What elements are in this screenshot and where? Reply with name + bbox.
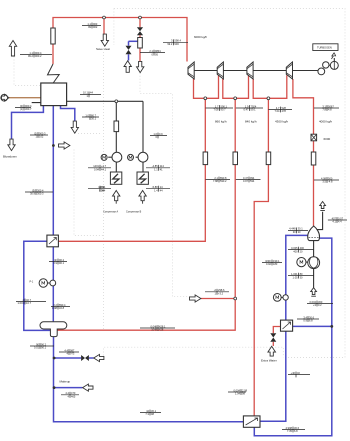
node J-saveheat [103, 16, 106, 19]
extra-water HX right [293, 325, 332, 327]
turbine ST4 [286, 62, 292, 79]
svg-text:1.0: 1.0 [153, 132, 157, 136]
svg-text:900.4: 900.4 [25, 104, 32, 108]
generator energy glyph [331, 53, 335, 59]
valve on drain branch (horizontal) [81, 355, 89, 361]
svg-text:10.1: 10.1 [83, 91, 89, 95]
T4 exhaust to condenser [293, 79, 314, 226]
value label flag 21 [25, 189, 53, 195]
node J-comp [115, 100, 118, 103]
svg-text:0.98: 0.98 [52, 306, 58, 310]
svg-text:Makeup: Makeup [60, 380, 71, 384]
svg-text:0.07: 0.07 [338, 216, 344, 220]
desuperheater rect on PRV line [138, 38, 143, 49]
T1 exhaust [194, 79, 205, 98]
generator circle big [330, 61, 338, 69]
svg-text:0.9: 0.9 [159, 132, 163, 136]
K1 energy arrow up [113, 191, 120, 201]
value label flag 5 [206, 105, 234, 111]
svg-text:4.8: 4.8 [328, 108, 332, 112]
svg-text:590.2: 590.2 [220, 179, 227, 183]
svg-text:598.4: 598.4 [174, 39, 181, 43]
heater rect on extraction 2 [233, 152, 238, 165]
svg-text:Compressor A: Compressor A [103, 211, 119, 214]
value label flag 3 [140, 50, 165, 56]
svg-text:1048: 1048 [151, 328, 157, 332]
svg-text:0.048: 0.048 [151, 324, 158, 328]
svg-text:903: 903 [174, 42, 179, 46]
node J-drain [53, 357, 56, 360]
svg-text:594: 594 [250, 179, 255, 183]
node J-makeup [53, 386, 56, 389]
svg-text:99.2: 99.2 [28, 54, 34, 58]
burner tick [32, 102, 50, 104]
value label flag 40 [328, 217, 347, 223]
ARROWS [1, 34, 326, 391]
svg-text:90.1: 90.1 [41, 346, 47, 350]
JUNCTION RINGS [103, 16, 270, 300]
svg-text:0.92: 0.92 [266, 262, 272, 266]
svg-text:1.001: 1.001 [18, 301, 25, 305]
BLACK NETWORK [32, 58, 335, 288]
condensate transfer glyph [311, 288, 317, 295]
motor M1 [101, 154, 107, 160]
generator circle mid [323, 62, 329, 68]
save heat branch [103, 18, 105, 35]
value label flag 23 [16, 299, 46, 305]
svg-text:7.8: 7.8 [322, 108, 326, 112]
heater rect on extraction 3 [266, 152, 271, 165]
svg-text:90.2: 90.2 [41, 342, 47, 346]
value label flag 11 [236, 177, 261, 183]
svg-text:2.08: 2.08 [242, 388, 248, 392]
svg-text:30.1: 30.1 [298, 227, 304, 231]
svg-text:4.4: 4.4 [338, 220, 342, 224]
svg-text:4.4: 4.4 [64, 348, 68, 352]
svg-text:465: 465 [71, 395, 76, 399]
svg-text:0.9: 0.9 [53, 261, 57, 265]
svg-text:407: 407 [332, 216, 337, 220]
condenser vent glyph [320, 202, 326, 209]
spray feed arrow up [124, 61, 131, 73]
svg-text:Save Heat: Save Heat [96, 47, 110, 51]
svg-text:90.1: 90.1 [59, 261, 65, 265]
svg-text:1.7: 1.7 [215, 104, 219, 108]
node J-mix [234, 297, 237, 300]
turbine ST3 [247, 62, 253, 79]
svg-text:30.1: 30.1 [151, 409, 157, 413]
svg-text:-5.88: -5.88 [152, 185, 158, 189]
prv branch [139, 18, 141, 28]
svg-text:0.01: 0.01 [34, 346, 40, 350]
value label flag 22 [49, 259, 67, 265]
svg-text:6.8: 6.8 [294, 429, 298, 433]
svg-text:7924: 7924 [251, 104, 257, 108]
svg-text:1.1: 1.1 [154, 168, 158, 172]
valve branch [54, 357, 81, 359]
value label flag 33 [262, 260, 282, 266]
value label flag 38 [205, 289, 229, 295]
svg-text:(2): (2) [54, 258, 57, 262]
svg-text:114: 114 [160, 164, 165, 168]
blowdown arrow down [8, 139, 15, 151]
FW heater HX box [47, 235, 59, 247]
svg-text:7.35: 7.35 [287, 429, 293, 433]
makeup branch [54, 387, 82, 389]
boundary top [114, 9, 345, 358]
svg-text:4.998: 4.998 [286, 426, 293, 430]
svg-text:30.6: 30.6 [309, 315, 315, 319]
value label flag 9 [150, 133, 167, 139]
svg-text:860 kg/h: 860 kg/h [215, 120, 227, 124]
generator label box [313, 44, 338, 51]
svg-text:190.1: 190.1 [273, 259, 280, 263]
boundary left stub [113, 9, 115, 46]
J2 extraction to deaerator [234, 100, 236, 297]
svg-text:(2): (2) [34, 131, 37, 135]
svg-text:4.7: 4.7 [276, 106, 280, 110]
feed pump motor [39, 279, 47, 287]
svg-text:3.1: 3.1 [322, 104, 326, 108]
drain to extra-water link [104, 347, 284, 357]
extra water [273, 327, 280, 334]
svg-text:90.2: 90.2 [59, 258, 65, 262]
svg-text:1.04: 1.04 [235, 392, 241, 396]
value label flag 10 [206, 177, 231, 183]
extra water arrow up [268, 346, 276, 356]
boiler blowdown [12, 106, 44, 139]
svg-text:6.8: 6.8 [309, 319, 313, 323]
heater rect on condenser line [311, 152, 316, 165]
cooling column [286, 235, 308, 320]
value label flag 4 [163, 39, 188, 45]
turbine ST2 [217, 62, 223, 79]
feedwater riser: boiler to heater [52, 106, 54, 235]
node J-coolant [330, 325, 333, 328]
svg-text:4.4: 4.4 [65, 391, 69, 395]
value label flag 2 [82, 23, 101, 29]
svg-text:+4.7: +4.7 [101, 164, 107, 168]
boiler vent arrow down [71, 121, 78, 133]
value label flag 36 [288, 273, 314, 279]
svg-text:744: 744 [101, 185, 106, 189]
svg-text:500: 500 [328, 176, 333, 180]
X valve box on condenser line [311, 134, 317, 141]
feed pump [50, 280, 56, 286]
svg-text:-4.8: -4.8 [328, 180, 333, 184]
svg-text:+40: +40 [291, 371, 296, 375]
svg-text:-4.85: -4.85 [152, 164, 158, 168]
svg-text:300.3: 300.3 [37, 192, 44, 196]
svg-text:1.9: 1.9 [245, 104, 249, 108]
value label flag 7 [268, 107, 292, 113]
value label flag 26 [59, 349, 79, 355]
svg-text:973: 973 [70, 352, 75, 356]
drain outlet arrow left [94, 354, 104, 361]
svg-text:6000 kg/h: 6000 kg/h [194, 35, 208, 39]
svg-text:903: 903 [93, 22, 98, 26]
svg-text:890.8: 890.8 [220, 176, 227, 180]
cooling pump motor [273, 294, 281, 302]
svg-text:900.3: 900.3 [39, 131, 46, 135]
svg-text:4.1: 4.1 [332, 220, 336, 224]
main steam [52, 44, 54, 64]
svg-text:300: 300 [318, 300, 323, 304]
value label flag 34 [288, 228, 308, 234]
svg-text:0.47: 0.47 [243, 176, 249, 180]
svg-text:0.004: 0.004 [310, 300, 317, 304]
svg-text:Blowdown: Blowdown [3, 155, 17, 159]
svg-text:1.0: 1.0 [85, 113, 89, 117]
svg-text:478: 478 [282, 109, 287, 113]
left loop [24, 241, 51, 330]
generator circle small [318, 68, 325, 75]
svg-text:7.3: 7.3 [145, 412, 149, 416]
svg-text:59.1: 59.1 [251, 108, 257, 112]
node J1 [204, 97, 207, 100]
svg-text:2.1: 2.1 [214, 176, 218, 180]
svg-text:4300 kg/h: 4300 kg/h [275, 120, 289, 124]
J1 extraction to FW heater [59, 100, 206, 241]
mixer inlet arrow right [189, 295, 200, 302]
prv link [140, 73, 191, 297]
svg-text:(190): (190) [265, 259, 271, 263]
svg-text:1.1: 1.1 [87, 22, 91, 26]
motor M2 [128, 154, 134, 160]
bottom HX box [243, 416, 260, 427]
value label flag 12 [314, 177, 339, 183]
prv spray line [128, 41, 130, 45]
boiler vent right [61, 106, 75, 121]
svg-text:890.4: 890.4 [59, 303, 66, 307]
node J2 [234, 97, 237, 100]
value label flag 19 [88, 186, 111, 192]
svg-text:90.7: 90.7 [221, 108, 227, 112]
svg-text:300.4: 300.4 [37, 188, 44, 192]
svg-text:(3): (3) [32, 188, 35, 192]
svg-text:0.2: 0.2 [318, 303, 322, 307]
svg-text:Compressor B: Compressor B [126, 211, 142, 214]
svg-text:44.1: 44.1 [101, 168, 107, 172]
svg-text:4000 kg/h: 4000 kg/h [319, 120, 333, 124]
RED NETWORK [53, 18, 314, 416]
svg-text:428: 428 [159, 328, 164, 332]
svg-text:987: 987 [70, 348, 75, 352]
condenser vent [317, 212, 323, 230]
svg-text:10.7: 10.7 [26, 301, 32, 305]
svg-text:TURBOGEN: TURBOGEN [317, 46, 332, 50]
boiler side outlet arrow right [59, 142, 70, 149]
svg-text:9891: 9891 [155, 49, 161, 53]
svg-text:(0): (0) [20, 104, 23, 108]
BROWN FUEL [9, 97, 41, 99]
svg-text:902: 902 [93, 25, 98, 29]
value label flag 32 [288, 372, 310, 378]
shaft [194, 70, 217, 72]
svg-text:840 kg/h: 840 kg/h [245, 120, 257, 124]
svg-text:3.5: 3.5 [322, 180, 326, 184]
compressor K2 circle [138, 152, 148, 162]
svg-text:428.1: 428.1 [159, 324, 166, 328]
condensate pump motor [297, 258, 306, 267]
bottom HX right to extra-water HX bottom [260, 331, 286, 421]
value label flag 25 [30, 343, 54, 349]
deaerator vessel [40, 322, 67, 337]
svg-text:30.6: 30.6 [294, 426, 300, 430]
value label flag 37 [307, 301, 333, 307]
value label flag 20 [146, 186, 170, 192]
svg-text:298.6: 298.6 [218, 288, 225, 292]
vent link [74, 150, 103, 236]
svg-text:400: 400 [293, 249, 298, 253]
T2 exhaust [223, 79, 234, 98]
boiler out to compressors [67, 100, 143, 102]
svg-text:32.8: 32.8 [59, 306, 65, 310]
svg-text:1.1: 1.1 [29, 51, 33, 55]
svg-text:0.004: 0.004 [234, 388, 241, 392]
value label flag 24 [51, 304, 70, 310]
value label flag 16 [80, 92, 101, 98]
value label flag 13 [15, 105, 31, 111]
blowoff link [78, 133, 101, 135]
condensate pump [308, 257, 320, 269]
extra water HX box [281, 320, 293, 331]
svg-text:7.04: 7.04 [274, 109, 280, 113]
svg-text:Extra Water: Extra Water [261, 359, 277, 363]
air feed link [14, 57, 41, 86]
valve on PRV line (vertical) [137, 27, 143, 35]
svg-text:528: 528 [282, 106, 287, 110]
value label flag 18 [146, 165, 170, 171]
valve on spray line (vertical) [126, 46, 132, 55]
svg-text:2.1: 2.1 [149, 49, 153, 53]
makeup arrow left [83, 384, 93, 391]
node J-prv [139, 16, 142, 19]
svg-text:99.2: 99.2 [167, 42, 173, 46]
T3 exhaust [253, 79, 267, 98]
svg-text:7.08: 7.08 [213, 108, 219, 112]
svg-text:183: 183 [273, 262, 278, 266]
energy box K2 [137, 172, 148, 184]
svg-text:900.4: 900.4 [35, 51, 42, 55]
svg-text:300.7: 300.7 [25, 107, 32, 111]
svg-text:1.4: 1.4 [154, 188, 158, 192]
value label flag 30 [297, 316, 319, 322]
svg-text:7.88: 7.88 [213, 179, 219, 183]
GRAY GUIDES [14, 9, 345, 358]
svg-text:0.005: 0.005 [291, 246, 298, 250]
svg-text:(1): (1) [20, 107, 23, 111]
svg-text:40.7: 40.7 [26, 298, 32, 302]
svg-text:102: 102 [39, 135, 44, 139]
K2 energy arrow up [139, 191, 146, 201]
turbine ST1 [188, 62, 194, 79]
J3 extraction to bottom HX [254, 100, 268, 416]
condenser bulb [308, 226, 320, 241]
valve on extra water (vertical) [270, 333, 276, 342]
energy box K1 [110, 172, 121, 184]
heater rect on extraction 1 [203, 152, 208, 165]
cooling pump [283, 295, 288, 300]
svg-text:4.448: 4.448 [289, 227, 296, 231]
value label flag 15 [30, 132, 48, 138]
svg-text:590.1: 590.1 [221, 104, 228, 108]
value label flag 31 [282, 427, 305, 433]
svg-text:3.4: 3.4 [303, 315, 307, 319]
svg-text:994: 994 [250, 176, 255, 180]
svg-text:470: 470 [71, 391, 76, 395]
value label flag 17 [88, 165, 111, 171]
air inlet arrow up [9, 41, 16, 57]
heater rect on compressor line 1 [114, 121, 119, 132]
svg-text:6000: 6000 [324, 137, 331, 141]
save heat link [103, 52, 105, 330]
boiler energy zigzag [48, 64, 60, 83]
svg-text:0.2: 0.2 [53, 303, 57, 307]
heater to pump to vessel [52, 247, 54, 322]
node J-boilerfeed [52, 144, 55, 147]
value label flag 8 [314, 105, 339, 111]
svg-text:0.94: 0.94 [94, 168, 100, 172]
bottom HX bottom to right riser [254, 327, 331, 436]
compressor K1 circle [112, 152, 122, 162]
generator link stubs [329, 64, 330, 66]
svg-text:5067: 5067 [328, 104, 334, 108]
svg-text:30.9: 30.9 [30, 192, 36, 196]
feed stream glyph [1, 94, 8, 101]
prv outlet arrow down [137, 61, 144, 72]
svg-text:900.2: 900.2 [35, 54, 42, 58]
value label flag 1 [20, 52, 52, 58]
value label flag 27 [61, 392, 79, 398]
condenser outlet / pump [313, 240, 315, 256]
svg-text:30.1: 30.1 [91, 117, 97, 121]
svg-text:1401: 1401 [93, 164, 99, 168]
svg-text:1.001: 1.001 [291, 272, 298, 276]
node J3 [267, 97, 270, 100]
vessel leg down to bottom main [54, 337, 244, 422]
boiler B1 [41, 83, 67, 106]
value label flag 39 [140, 325, 175, 331]
save heat arrow down [101, 34, 108, 46]
svg-text:80.7: 80.7 [91, 113, 97, 117]
value label flag 14 [82, 114, 99, 120]
svg-text:394: 394 [101, 188, 106, 192]
svg-text:400: 400 [300, 246, 305, 250]
value label flag 35 [288, 247, 314, 253]
svg-text:0.9: 0.9 [303, 319, 307, 323]
svg-text:P-1: P-1 [30, 281, 34, 284]
value label flag 29 [228, 389, 246, 395]
right riser to bulb [319, 238, 331, 326]
svg-text:0.47: 0.47 [243, 108, 249, 112]
heater rect on main steam riser [51, 28, 55, 44]
value label flag 28 [140, 410, 161, 416]
VALVES [81, 27, 276, 361]
value label flag 6 [236, 105, 263, 111]
svg-text:0.97: 0.97 [243, 179, 249, 183]
svg-text:1.05: 1.05 [293, 275, 299, 279]
svg-text:4.08: 4.08 [321, 176, 327, 180]
svg-text:+3.2: +3.2 [218, 292, 224, 296]
